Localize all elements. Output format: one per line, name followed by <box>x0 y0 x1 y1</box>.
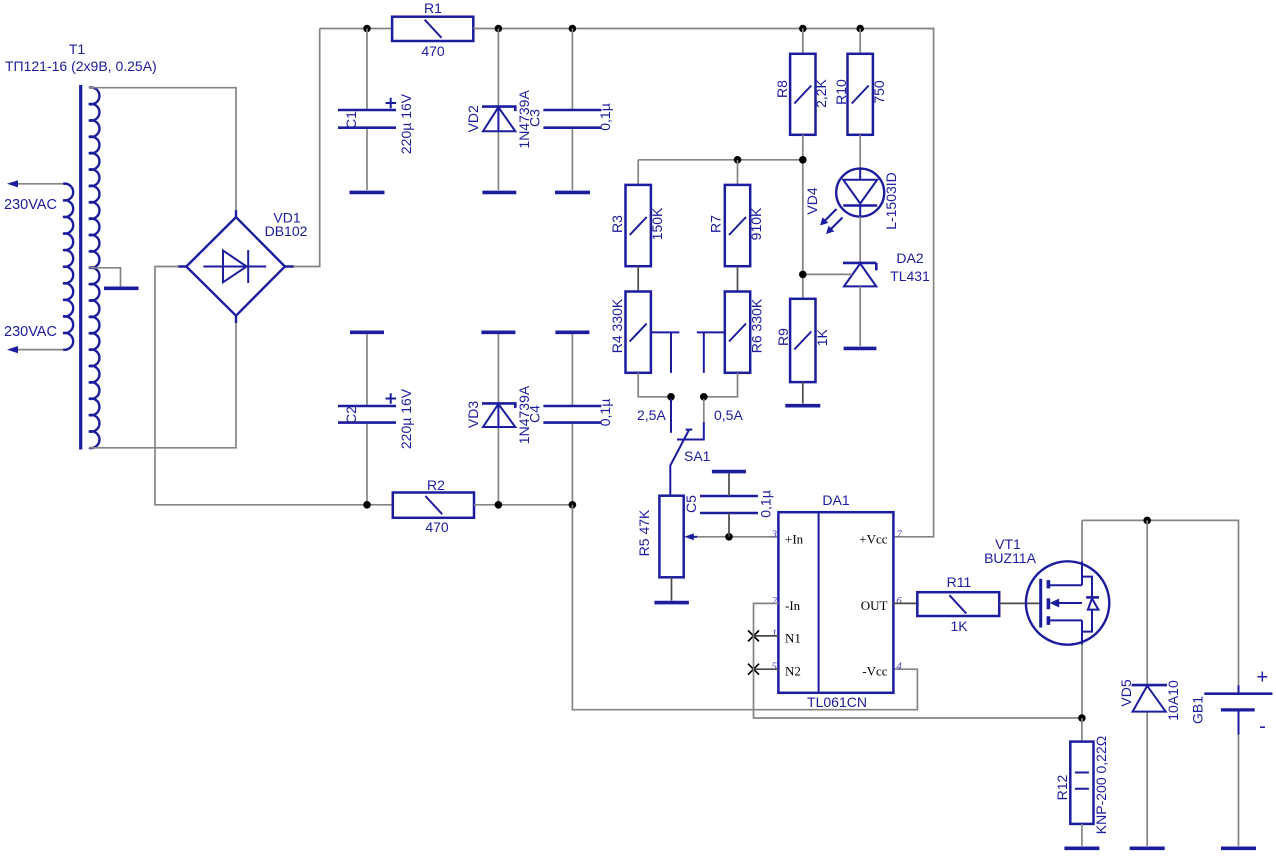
svg-text:6: 6 <box>896 595 902 607</box>
C1 plus sign <box>386 98 397 109</box>
capacitor C2 <box>338 406 396 423</box>
wire R8 top stub <box>802 29 804 54</box>
wire VD3 column <box>497 334 499 403</box>
C3 labels <box>526 103 613 131</box>
resistor R6 <box>725 292 750 373</box>
resistor R4 <box>626 292 651 373</box>
DA1 labels <box>807 492 867 710</box>
svg-text:1K: 1K <box>950 618 968 634</box>
ground bar R12 <box>1064 846 1099 850</box>
resistor R7 <box>725 185 750 266</box>
R7 labels <box>707 207 764 240</box>
svg-text:OUT: OUT <box>861 598 888 613</box>
ground bar VD5 <box>1130 846 1165 850</box>
svg-text:4: 4 <box>896 661 902 673</box>
wire R10 to LED <box>859 135 861 169</box>
svg-text:R9: R9 <box>775 328 791 346</box>
wire R8 bottom stub <box>802 135 804 160</box>
node C5 junction <box>725 533 733 541</box>
svg-text:TL061CN: TL061CN <box>807 694 867 710</box>
svg-text:R2: R2 <box>427 477 445 493</box>
node rail VD3 <box>495 501 503 509</box>
svg-text:7: 7 <box>896 528 902 540</box>
svg-text:2: 2 <box>772 595 778 607</box>
battery GB1 <box>1204 685 1272 734</box>
node top rail VD2 <box>495 25 503 33</box>
R2 labels <box>425 477 449 535</box>
resistor R2 <box>393 493 474 518</box>
svg-text:220µ 16V: 220µ 16V <box>398 93 414 154</box>
resistor R9 <box>790 299 815 382</box>
resistor R8 <box>790 54 815 135</box>
op-amp DA1 TL061CN <box>778 512 893 693</box>
capacitor C1 <box>338 110 396 128</box>
svg-text:+: + <box>1257 667 1269 689</box>
capacitor C5 <box>700 496 758 513</box>
svg-text:470: 470 <box>421 43 445 59</box>
svg-text:0,1µ: 0,1µ <box>757 490 773 518</box>
svg-text:R4 330K: R4 330K <box>609 298 625 353</box>
DA1 pin stubs N1 N2 <box>754 636 779 669</box>
svg-text:BUZ11A: BUZ11A <box>984 550 1037 566</box>
C4 labels <box>526 399 613 427</box>
svg-text:750: 750 <box>871 80 887 104</box>
capacitor C3 <box>543 110 601 128</box>
node rail C2 <box>363 501 371 509</box>
shunt regulator DA2 TL431 <box>843 263 876 287</box>
R3 labels <box>609 207 665 240</box>
C2 plus sign <box>386 393 397 404</box>
svg-text:-In: -In <box>785 598 801 613</box>
svg-text:2,2K: 2,2K <box>813 78 829 107</box>
svg-text:+Vcc: +Vcc <box>859 531 887 546</box>
LED VD4 <box>836 169 884 217</box>
no-connect X pin N1 <box>748 630 759 641</box>
svg-text:L-1503ID: L-1503ID <box>883 172 899 230</box>
no-connect X pin N2 <box>748 664 759 675</box>
svg-text:0,1µ: 0,1µ <box>597 103 613 131</box>
wire rail right of R2 <box>474 504 572 506</box>
wire C4 column <box>571 334 573 406</box>
DA2 labels <box>890 250 930 284</box>
svg-text:N2: N2 <box>785 664 801 679</box>
wire R5 bottom <box>671 577 673 600</box>
resistor R10 <box>848 54 873 135</box>
svg-text:R10: R10 <box>833 79 849 105</box>
GB1 labels <box>1189 667 1268 738</box>
node mid rail R7 <box>734 156 742 164</box>
resistor R11 <box>917 592 999 616</box>
node top rail R8 <box>799 25 807 33</box>
ground bar VD3 top <box>481 330 515 334</box>
wire source down <box>1081 645 1083 719</box>
R10 labels <box>833 79 887 105</box>
node top rail R10 <box>856 25 864 33</box>
wire R7 top stub <box>737 160 739 185</box>
svg-text:DA2: DA2 <box>896 250 923 266</box>
node 0.5A contact <box>700 393 708 401</box>
wire R11 to gate <box>999 602 1040 604</box>
svg-text:R3: R3 <box>609 215 625 233</box>
transformer T1 core <box>79 85 82 450</box>
wire top rail right of R1 <box>473 29 933 537</box>
wire sense to R12 <box>1081 718 1083 742</box>
ground bar R9 <box>785 404 820 408</box>
svg-text:R12: R12 <box>1054 774 1070 800</box>
transformer T1 primary winding <box>63 184 73 350</box>
transformer T1 secondary winding <box>89 87 100 448</box>
DA1 pin numbers <box>771 528 903 672</box>
ground bar center tap <box>104 286 139 290</box>
svg-text:DB102: DB102 <box>265 223 308 239</box>
C1 labels <box>343 93 414 154</box>
switch SA1 contact taps <box>651 332 725 373</box>
wire OUT to R11 <box>893 602 917 604</box>
wire R3 to R4 stub <box>637 266 639 291</box>
VD5 labels <box>1118 679 1181 721</box>
R8 labels <box>774 78 829 107</box>
ground bar C4 top <box>555 330 589 334</box>
svg-text:1: 1 <box>772 627 778 639</box>
svg-text:10A10: 10A10 <box>1165 680 1181 721</box>
svg-text:ТП121-16 (2x9В, 0.25А): ТП121-16 (2x9В, 0.25А) <box>5 58 157 74</box>
VD4 labels <box>804 172 899 230</box>
svg-text:R8: R8 <box>774 80 790 98</box>
ground bar C2 top <box>350 330 384 334</box>
ground bar GB1 <box>1221 846 1256 850</box>
svg-text:C2: C2 <box>343 406 359 424</box>
transformer T1 labels <box>5 41 157 74</box>
VD3 labels <box>465 385 532 444</box>
wire R4 bottom to 2.5A contact <box>638 373 671 397</box>
ground bar C5 top <box>712 470 746 474</box>
resistor R12 <box>1070 742 1093 824</box>
svg-text:230VAC: 230VAC <box>4 324 57 340</box>
wire R12 bottom <box>1081 824 1083 846</box>
svg-text:C5: C5 <box>683 495 699 513</box>
svg-text:+In: +In <box>785 531 804 546</box>
svg-text:0,5A: 0,5A <box>714 407 743 423</box>
C5 labels <box>683 490 774 518</box>
R9 labels <box>775 328 830 346</box>
svg-text:-: - <box>1259 716 1266 738</box>
ground bar C1 <box>350 191 385 195</box>
ground bar R5 <box>654 601 689 605</box>
R11 labels <box>947 574 972 634</box>
diode VD5 <box>1132 685 1167 712</box>
svg-text:GB1: GB1 <box>1189 696 1205 724</box>
svg-text:C1: C1 <box>343 111 359 129</box>
svg-text:0,1µ: 0,1µ <box>597 399 613 427</box>
wire output rail <box>1082 520 1239 685</box>
svg-text:R7: R7 <box>707 215 723 233</box>
VD1 label <box>265 210 308 240</box>
svg-text:R6 330K: R6 330K <box>748 298 764 353</box>
ground bar VD2 <box>482 191 516 195</box>
VD2 labels <box>465 90 532 149</box>
svg-text:N1: N1 <box>785 630 801 645</box>
wire C1 column <box>366 29 368 111</box>
svg-text:TL431: TL431 <box>890 268 930 284</box>
svg-text:R5 47K: R5 47K <box>636 509 652 556</box>
svg-text:C3: C3 <box>526 109 542 127</box>
wire C2 column <box>366 334 368 406</box>
VD4 light arrows <box>820 209 843 234</box>
wire secondary top to bridge <box>89 88 236 211</box>
wire DA2 anode to ground <box>859 286 861 346</box>
svg-text:VD3: VD3 <box>465 401 481 428</box>
ground bar DA2 <box>844 347 877 351</box>
node top rail C1 <box>363 25 371 33</box>
svg-text:1K: 1K <box>814 328 830 346</box>
svg-text:SA1: SA1 <box>684 448 711 464</box>
wire secondary bottom to bridge <box>89 323 236 448</box>
node sense <box>1078 714 1086 722</box>
svg-text:470: 470 <box>425 519 449 535</box>
svg-text:VD4: VD4 <box>804 187 820 214</box>
node DA2 ref <box>799 271 807 279</box>
wire negative to -Vcc <box>572 505 917 710</box>
svg-text:150K: 150K <box>649 207 665 240</box>
switch SA1 <box>670 399 704 496</box>
svg-text:R11: R11 <box>947 574 972 590</box>
svg-text:VD2: VD2 <box>465 105 481 132</box>
svg-text:R1: R1 <box>424 0 442 16</box>
wire bridge plus to top rail <box>294 29 320 267</box>
ground bar C3 <box>555 191 590 195</box>
R12 labels <box>1054 736 1109 834</box>
wire R9 bottom stub <box>802 382 804 403</box>
svg-text:5: 5 <box>772 661 778 673</box>
wire R3 top <box>637 160 639 185</box>
wire VD2 column <box>497 29 499 107</box>
svg-text:230VAC: 230VAC <box>4 197 57 213</box>
R1 labels <box>421 0 445 59</box>
230VAC input arrow top <box>7 180 63 187</box>
wire C3 column <box>571 29 573 111</box>
svg-text:910K: 910K <box>748 207 764 240</box>
node rail C4 <box>569 501 577 509</box>
resistor R1 <box>392 17 473 41</box>
wire R7 to R6 stub <box>737 266 739 291</box>
wire LED to DA2 <box>859 217 861 263</box>
wire -In feedback to sense node <box>754 603 1082 718</box>
svg-text:VD5: VD5 <box>1118 679 1134 706</box>
wire top positive rail <box>320 28 392 30</box>
DA1 pin names <box>785 531 888 678</box>
wire R5 wiper to opamp <box>697 536 778 538</box>
svg-text:DA1: DA1 <box>822 492 849 508</box>
svg-text:2,5A: 2,5A <box>637 407 666 423</box>
svg-text:220µ 16V: 220µ 16V <box>398 388 414 449</box>
node mid rail R8 <box>799 156 807 164</box>
svg-text:KNP-200 0,22Ω: KNP-200 0,22Ω <box>1093 736 1109 834</box>
VT1 labels <box>984 536 1037 566</box>
node VD5 top <box>1143 517 1151 525</box>
230VAC input arrow bottom <box>7 346 63 353</box>
wire VD5 column <box>1146 520 1148 685</box>
svg-text:C4: C4 <box>526 405 542 423</box>
wire mid rail R3 R7 R8 <box>638 160 803 299</box>
wire R10 top stub <box>859 29 861 54</box>
bridge rectifier VD1 DB102 <box>178 210 294 323</box>
wire bridge minus to bottom rail <box>155 267 393 505</box>
wire center tap <box>89 268 121 287</box>
potentiometer R5 <box>659 496 697 578</box>
zener diode VD2 <box>482 107 515 132</box>
wire DA2 ref <box>803 273 852 275</box>
capacitor C4 <box>543 406 601 423</box>
C2 labels <box>343 388 414 449</box>
svg-text:3: 3 <box>771 528 778 540</box>
wire GB1 bottom <box>1238 735 1240 846</box>
svg-text:T1: T1 <box>69 41 86 57</box>
node top rail C3 <box>569 25 577 33</box>
wire drain up <box>1081 520 1083 561</box>
wire R6 bottom to 0.5A contact <box>704 373 738 397</box>
resistor R3 <box>626 185 651 266</box>
transistor VT1 BUZ11A <box>1026 561 1109 644</box>
zener diode VD3 <box>482 403 515 427</box>
svg-text:-Vcc: -Vcc <box>862 664 887 679</box>
wire C5 stubs <box>728 474 730 537</box>
node 2.5A contact <box>667 393 675 401</box>
